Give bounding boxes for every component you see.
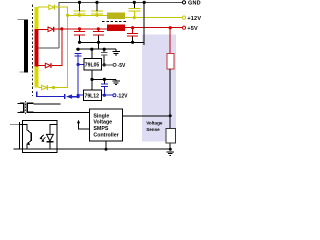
- svg-text:Voltage: Voltage: [93, 120, 112, 126]
- svg-text:+12V: +12V: [187, 16, 201, 22]
- svg-text:GND: GND: [188, 1, 201, 7]
- svg-text:79L05: 79L05: [85, 62, 100, 68]
- svg-text:-5V: -5V: [118, 63, 126, 69]
- svg-text:-12V: -12V: [117, 93, 128, 99]
- svg-text:79L12: 79L12: [85, 94, 100, 100]
- svg-text:Controller: Controller: [93, 132, 118, 138]
- svg-text:Sense: Sense: [146, 127, 160, 132]
- svg-text:SMPS: SMPS: [93, 126, 108, 132]
- svg-text:Single: Single: [93, 113, 109, 119]
- svg-text:+5V: +5V: [187, 26, 198, 32]
- svg-text:Voltage: Voltage: [146, 121, 163, 126]
